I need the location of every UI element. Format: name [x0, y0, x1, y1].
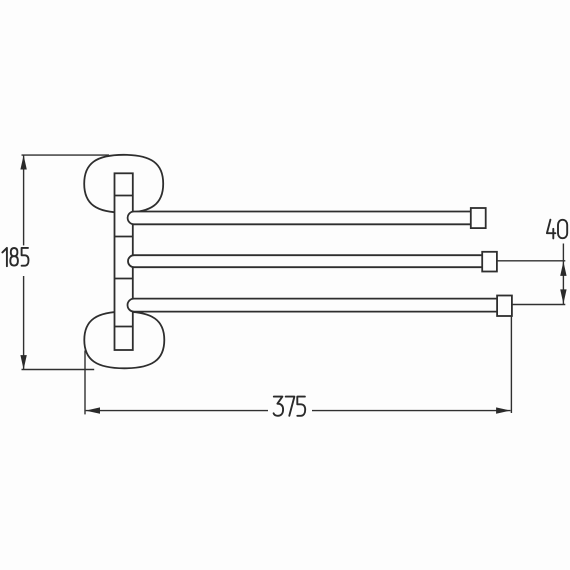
dim text 375 digit 5 — [297, 397, 305, 416]
post joint line 1 — [115, 195, 133, 197]
dim text 185 digit 8 — [10, 248, 18, 266]
post joint line 2 — [115, 236, 133, 238]
dim text 375 digit 3 — [274, 397, 284, 416]
dim text 40 digit 4 — [547, 220, 556, 239]
pivot post bar — [115, 173, 133, 350]
dim 185 top extension line — [22, 154, 110, 156]
dim 185 bottom extension line — [22, 369, 95, 371]
arrow 375 right — [496, 407, 510, 413]
arm 3 end cap — [497, 296, 512, 317]
dim text 375 digit 7 — [286, 397, 295, 416]
dim 40 upper extension line — [497, 260, 565, 262]
arm 3 — [128, 299, 506, 312]
dim text 185 digit 1 — [2, 248, 7, 266]
dim 375 left extension line — [84, 351, 86, 415]
wall mount bottom — [84, 312, 164, 369]
dim 185 line lower segment — [23, 276, 25, 370]
arrow 40 up — [560, 262, 566, 276]
dim text 185 digit 5 — [22, 248, 29, 266]
dim text 40 digit 0 — [558, 220, 567, 238]
post joint line 3 — [115, 278, 133, 280]
dim 375 line right segment — [312, 410, 511, 412]
arrow 185 down — [20, 355, 26, 369]
dim 375 right extension line — [510, 316, 512, 413]
arm 2 — [128, 255, 490, 267]
dim 40 line — [562, 261, 564, 305]
arrow 40 down — [560, 289, 566, 303]
dim 40 leader stub — [562, 244, 564, 261]
wall mount top — [84, 155, 163, 213]
arm 1 — [128, 212, 478, 225]
post joint line 4 — [115, 326, 133, 328]
dim 375 line left segment — [86, 410, 268, 412]
arrow 375 left — [86, 407, 100, 413]
arrow 185 up — [20, 155, 26, 169]
arm 1 end cap — [471, 208, 486, 228]
dim 40 lower extension line — [512, 304, 565, 306]
arm 2 end cap — [482, 252, 497, 272]
dim 185 line upper segment — [23, 155, 25, 245]
